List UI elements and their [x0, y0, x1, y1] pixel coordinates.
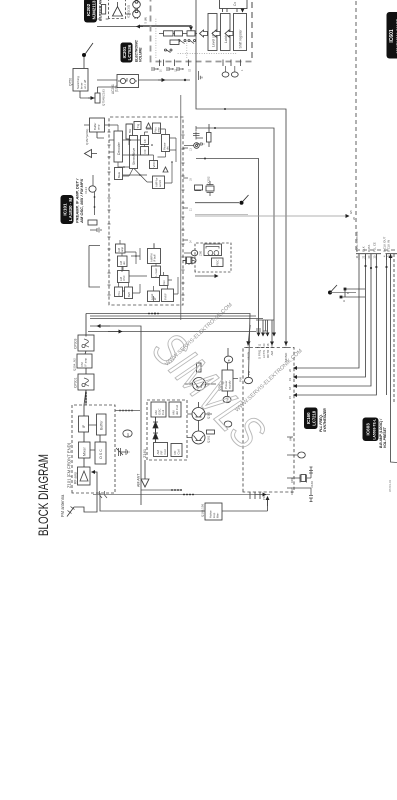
- Z101 FM front end dashed box: [67, 405, 116, 498]
- PW ellipse: [223, 396, 231, 402]
- amp for switch box: [153, 176, 165, 189]
- AM IF buff box: [148, 249, 161, 264]
- key switch: [165, 49, 173, 53]
- wire from amp area: [97, 26, 190, 28]
- IC160 bottom pins: [287, 437, 299, 488]
- pin numbers: [355, 255, 394, 259]
- small box: [195, 186, 201, 191]
- long faint line: [195, 215, 349, 217]
- FF1 box: [141, 136, 149, 145]
- shift register: [234, 14, 247, 51]
- node dot: [82, 53, 86, 57]
- resistor QT545: [95, 89, 106, 106]
- wires: [80, 57, 95, 98]
- AM amp box: [116, 244, 126, 253]
- PB REC ellipse: [224, 356, 232, 363]
- wires: [98, 2, 132, 19]
- stereo drive box: [130, 136, 138, 169]
- bus B: [196, 128, 274, 336]
- wire: [93, 494, 270, 496]
- caps to ground: [90, 228, 101, 233]
- bus A: [196, 0, 286, 345]
- hollow arrows: [200, 30, 208, 37]
- linkage dotted: [156, 18, 238, 58]
- AM det box: [118, 256, 128, 267]
- internal wires IC101: [109, 125, 168, 291]
- circle sym: [191, 250, 197, 256]
- det box: [160, 276, 169, 286]
- wires: [208, 124, 210, 147]
- phase det box: [162, 135, 170, 152]
- FM IF out dotted row: [119, 410, 133, 412]
- jumper bracket: [340, 288, 365, 302]
- pin labels: [289, 436, 295, 495]
- resistor: [88, 220, 97, 225]
- dot row: [85, 392, 87, 403]
- AM OSC coil box: [151, 402, 166, 417]
- small triangle amp: [163, 167, 168, 172]
- arrows into IC601: [359, 255, 391, 261]
- AM det coil box: [169, 402, 181, 417]
- wire with junctions: [93, 175, 95, 215]
- cassette mech dashed box: [195, 243, 231, 272]
- IC101 caption: [75, 178, 85, 224]
- long wire 2: [90, 315, 256, 317]
- mute box: [115, 168, 123, 180]
- IC160 dashed box: [243, 348, 294, 493]
- IC160 pill: [304, 408, 318, 430]
- pin numbers at IC160: [288, 368, 292, 399]
- phone jack L: [133, 0, 141, 9]
- dot row mid: [148, 313, 159, 315]
- counter box: [152, 266, 161, 278]
- circle sym: [194, 143, 200, 149]
- ellipse VDD: [298, 452, 306, 458]
- ceramic filter CP301: [74, 374, 95, 390]
- Reg circle: [183, 258, 196, 265]
- IC603 caption: [379, 418, 387, 448]
- long wire 3: [90, 318, 263, 320]
- common driver box: [220, 0, 248, 9]
- IC202 pill: [84, 0, 97, 23]
- OSC: [95, 442, 106, 464]
- wire: [98, 87, 118, 93]
- resistor: [102, 5, 106, 15]
- buffer amp Q107: [85, 118, 105, 145]
- VT line to loop filter: [100, 493, 205, 511]
- IC601 pill: [387, 12, 397, 59]
- transistor Q602: [192, 408, 211, 421]
- crystal X103: [187, 257, 192, 264]
- bus C: [196, 159, 259, 337]
- svg-text:WWW.SERVIS-ELEKTRONIK.COM: WWW.SERVIS-ELEKTRONIK.COM: [234, 348, 304, 414]
- transistor Q601: [188, 378, 210, 391]
- resistor: [170, 40, 179, 45]
- ceramic filter CP303: [74, 335, 95, 351]
- ellipse: [224, 421, 232, 427]
- board pin stubs: [160, 60, 241, 67]
- shift register block: [208, 14, 217, 51]
- caps w grounds: [296, 467, 313, 502]
- AM RF coil box: [154, 443, 168, 457]
- FM IF box: [162, 289, 174, 302]
- switching lever box: [69, 69, 89, 92]
- wires: [228, 348, 239, 396]
- wire to node: [195, 202, 239, 204]
- resistor: [207, 430, 215, 434]
- X124 ellipse: [84, 186, 96, 194]
- wires: [85, 314, 86, 406]
- wire: [115, 410, 140, 412]
- long wire inner: [180, 95, 182, 320]
- variable capacitor: [116, 448, 129, 456]
- cap stubs below board: [152, 67, 183, 71]
- display board dashed box: [151, 0, 253, 62]
- stereo switch box: [126, 124, 133, 139]
- long wire 4: [88, 331, 256, 333]
- decoder box: [114, 131, 123, 162]
- bridge wire: [89, 246, 100, 288]
- RF amp: [74, 467, 91, 485]
- flag marker: [85, 150, 98, 158]
- buff box: [125, 287, 133, 299]
- IC101 dashed box: [109, 117, 183, 305]
- VCO box: [150, 161, 158, 169]
- Z161 AM module dashed box: [142, 400, 187, 460]
- resistor: [207, 133, 212, 143]
- wires: [84, 125, 109, 138]
- volume AC201: [111, 75, 139, 95]
- resistor: [195, 185, 203, 190]
- wire through pot: [97, 79, 190, 81]
- IC601 pin bar: [356, 253, 397, 255]
- caps on bus: [256, 320, 274, 333]
- wire lx585: [195, 214, 248, 216]
- board divider dashed: [355, 0, 357, 250]
- corner wire: [391, 405, 397, 463]
- pin ticks: [246, 347, 288, 349]
- stub labels: [160, 68, 245, 72]
- ground: [196, 142, 204, 146]
- node dot mid: [328, 291, 332, 295]
- diode D161: [153, 417, 158, 432]
- mixer: [79, 442, 91, 458]
- PLL box: [115, 287, 123, 297]
- IC202 dashed box: [109, 0, 126, 19]
- resistor: [197, 363, 202, 372]
- 9V FM ellipse: [123, 430, 132, 437]
- node dot: [240, 201, 244, 205]
- loop filter: [201, 496, 268, 520]
- IF box: [79, 416, 89, 432]
- IC160 left pins: [250, 492, 260, 499]
- IC160 caption: [319, 408, 327, 432]
- crystal X102: [206, 176, 214, 196]
- IC160 pin labels: [247, 349, 289, 362]
- front end wires: [84, 405, 100, 467]
- phone jack R: [133, 10, 141, 19]
- FF2 box: [141, 147, 149, 156]
- arrows from common driver: [223, 9, 243, 13]
- small triangle amp: [146, 123, 151, 128]
- key switch: [178, 40, 186, 44]
- wire: [140, 26, 191, 31]
- AM OSC box: [118, 271, 130, 283]
- key resistor chain: [159, 33, 197, 35]
- wires: [184, 384, 216, 438]
- capacitor cluster: [193, 126, 203, 140]
- ellipse: [245, 377, 253, 383]
- pilot amp box: [153, 123, 161, 134]
- diode D162: [153, 429, 158, 443]
- IC201 caption: [135, 39, 143, 62]
- ceramic filter CP302: [73, 354, 93, 371]
- long wire 1: [86, 313, 145, 315]
- wire: [141, 489, 182, 491]
- junction dots: [364, 265, 366, 267]
- internal wires 2: [109, 124, 178, 302]
- crystal X160: [299, 475, 314, 489]
- IC101 pin ticks: [108, 132, 111, 295]
- PLL control lines: [294, 254, 395, 405]
- IC101 pill: [61, 195, 74, 224]
- pin labels: [355, 232, 391, 252]
- AM ant long wire: [90, 326, 141, 505]
- trig box: [134, 122, 141, 130]
- key switch: [188, 40, 196, 44]
- buffer: [97, 414, 107, 435]
- pin stubs bottom edge: [183, 148, 188, 240]
- IC603 pill: [363, 418, 379, 442]
- ground: [199, 71, 203, 80]
- AM ANT: [137, 460, 150, 487]
- IC201 pill: [121, 43, 133, 63]
- power supply box: [218, 370, 234, 391]
- arrow wire: [195, 275, 218, 277]
- bus D: [145, 314, 250, 378]
- level box: [148, 291, 160, 302]
- IC601 left edge: [356, 249, 397, 251]
- transistor Q161: [192, 431, 211, 444]
- box: [171, 444, 182, 457]
- op-amp U202: [113, 7, 123, 17]
- FM antenna: [60, 472, 97, 517]
- bus stubs: [262, 320, 264, 336]
- stub ellipses: [222, 72, 229, 77]
- junction dots on buses: [154, 313, 156, 315]
- latch block: [221, 14, 231, 51]
- dotted row: [171, 489, 182, 491]
